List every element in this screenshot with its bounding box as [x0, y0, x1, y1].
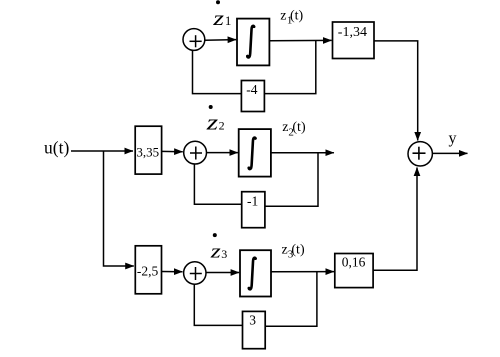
svg-text:1: 1: [225, 13, 232, 28]
svg-text:(t): (t): [290, 8, 304, 23]
gain block -2,5: [135, 246, 161, 294]
wire gain -2,5 to summer S3: [162, 271, 183, 273]
summer S3: [184, 262, 206, 284]
svg-text:-1: -1: [247, 194, 258, 209]
wire summer S2 to integrator I2: [207, 152, 238, 154]
label zdot1: [212, 7, 224, 30]
svg-text:z: z: [212, 7, 224, 30]
label zdot2 dot: [209, 105, 213, 109]
svg-text:-4: -4: [246, 82, 257, 97]
wire integrator I3 to gain 0,16 with node N3: [271, 271, 334, 273]
wire gain 0,16 to output summer S4: [373, 168, 417, 271]
svg-text:3: 3: [249, 313, 256, 328]
gain block -1,34: [333, 22, 375, 59]
integrator I1: [237, 19, 269, 66]
wire summer S1 to integrator I1: [205, 39, 236, 42]
svg-text:z: z: [206, 110, 219, 135]
svg-text:3: 3: [221, 247, 227, 261]
svg-text:(t): (t): [291, 242, 305, 257]
wire integrator I1 to gain -1,34 with node N1: [269, 39, 331, 41]
wire output summer S4 to y: [432, 152, 467, 154]
svg-text:3,35: 3,35: [136, 144, 159, 159]
label zdot3 dot: [213, 233, 217, 237]
svg-text:u(t): u(t): [44, 138, 69, 158]
wire gain -1,34 to output summer S4: [374, 41, 418, 141]
gain block -4: [241, 81, 264, 112]
summer S1: [183, 29, 205, 51]
gain block 3: [243, 311, 266, 348]
svg-text:0,16: 0,16: [342, 254, 366, 269]
wire feedback node N2 down to gain -1: [265, 153, 318, 207]
integrator I2: [239, 129, 271, 177]
gain block -1: [242, 192, 265, 228]
gain block 3,35: [135, 126, 161, 174]
svg-text:y: y: [449, 130, 457, 147]
svg-text:-1,34: -1,34: [338, 25, 367, 40]
svg-text:z: z: [210, 241, 221, 262]
wire summer S3 to integrator I3: [206, 272, 239, 274]
gain block 0,16: [335, 254, 373, 288]
summer S2: [184, 141, 207, 164]
wire gain -1 to summer S2: [194, 164, 241, 204]
integrator I3: [240, 250, 271, 296]
svg-text:-2,5: -2,5: [137, 263, 159, 278]
wire gain 3,35 to summer S2: [162, 150, 183, 152]
svg-text:(t): (t): [292, 120, 306, 135]
label zdot3: [210, 241, 221, 262]
label zdot1 dot: [216, 0, 220, 4]
svg-text:2: 2: [219, 119, 225, 133]
wire gain 3 to summer S3: [194, 284, 242, 325]
wire gain -4 to summer S1: [193, 50, 242, 93]
label zdot2: [206, 110, 219, 135]
svg-text:z: z: [280, 8, 286, 23]
wire integrator I2 output with node N2 ending arrow: [271, 152, 334, 154]
wire feedback node N1 down to gain -4: [265, 41, 316, 94]
wire branch down from node to gain -2,5: [104, 151, 134, 266]
wire u(t) to gain 3,35: [71, 150, 133, 152]
wire feedback node N3 down to gain 3: [265, 272, 317, 326]
output summer S4: [408, 142, 432, 166]
